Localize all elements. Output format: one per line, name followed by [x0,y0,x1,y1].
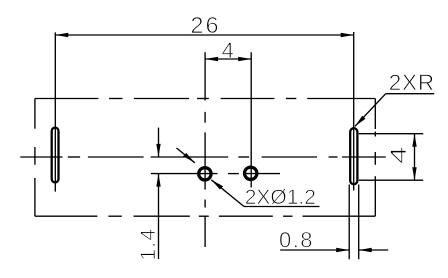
svg-text:2XR: 2XR [389,70,435,95]
svg-text:2XØ1.2: 2XØ1.2 [245,186,316,209]
svg-text:1.4: 1.4 [137,228,160,261]
svg-text:4: 4 [222,38,234,63]
svg-text:26: 26 [190,12,220,38]
svg-text:0.8: 0.8 [279,228,314,253]
svg-text:4: 4 [386,146,411,164]
